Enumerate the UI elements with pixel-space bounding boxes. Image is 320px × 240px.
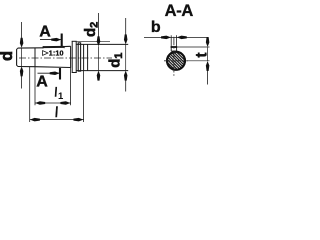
cutting plane A top stroke	[61, 34, 63, 47]
key top	[171, 46, 178, 48]
dimension l	[30, 119, 84, 121]
cutting plane A top arrow	[40, 39, 61, 41]
b extension lines	[170, 35, 172, 46]
dimension d1	[125, 18, 127, 92]
taper cone outline	[35, 46, 71, 67]
l extension lines	[29, 67, 31, 122]
dimension l1	[35, 102, 71, 104]
svg-text:d: d	[0, 51, 16, 61]
circle outline redraw	[167, 52, 185, 70]
shaft left cylinder outline	[16, 48, 43, 67]
collar ring 1	[72, 41, 77, 72]
svg-text:1:10: 1:10	[49, 49, 64, 58]
dimension t	[207, 38, 209, 85]
keyway slot bottom	[171, 50, 176, 52]
svg-text:d: d	[107, 59, 124, 68]
cutting plane A bottom stroke	[59, 68, 61, 80]
taper start edge (also l1 extension)	[34, 48, 36, 67]
dimension d2	[98, 13, 100, 81]
collar ring 2	[78, 43, 81, 72]
svg-text:2: 2	[88, 22, 100, 28]
svg-text:b: b	[151, 19, 161, 36]
keyway slot erase	[172, 47, 176, 50]
label d1 (rotated)	[107, 53, 125, 68]
vertical centerline of section	[173, 37, 175, 76]
axis centerline	[19, 57, 112, 59]
keyway slot sides	[170, 47, 172, 52]
t extension line (key top)	[177, 46, 209, 48]
cutting plane A bottom arrow	[38, 72, 60, 74]
taper end edge (also l1 right extension)	[70, 46, 72, 67]
horizontal centerline of section	[164, 60, 188, 62]
svg-text:t: t	[193, 52, 210, 57]
centerline extension as t reference	[188, 60, 210, 62]
svg-text:A: A	[39, 23, 51, 40]
svg-text:1: 1	[113, 53, 125, 59]
svg-text:A: A	[36, 74, 48, 91]
hatching	[165, 38, 187, 85]
l1 extension lines below shaft	[34, 67, 36, 105]
dimension d	[21, 22, 23, 89]
svg-text:A-A: A-A	[165, 2, 194, 20]
svg-text:l: l	[54, 105, 58, 121]
svg-text:1: 1	[58, 91, 64, 102]
svg-text:d: d	[82, 28, 99, 37]
ring top extension line for d2	[77, 40, 110, 42]
label d2 (rotated)	[82, 22, 100, 37]
main cylinder bottom line + d1 extension	[76, 70, 128, 72]
taper symbol 1:10	[43, 51, 48, 56]
main cylinder top line + d1 extension	[76, 43, 128, 45]
section circle	[167, 52, 185, 70]
dimension b	[144, 36, 208, 38]
key on taper	[43, 46, 64, 48]
label d (rotated)	[0, 51, 16, 61]
collar block edges	[84, 44, 88, 70]
